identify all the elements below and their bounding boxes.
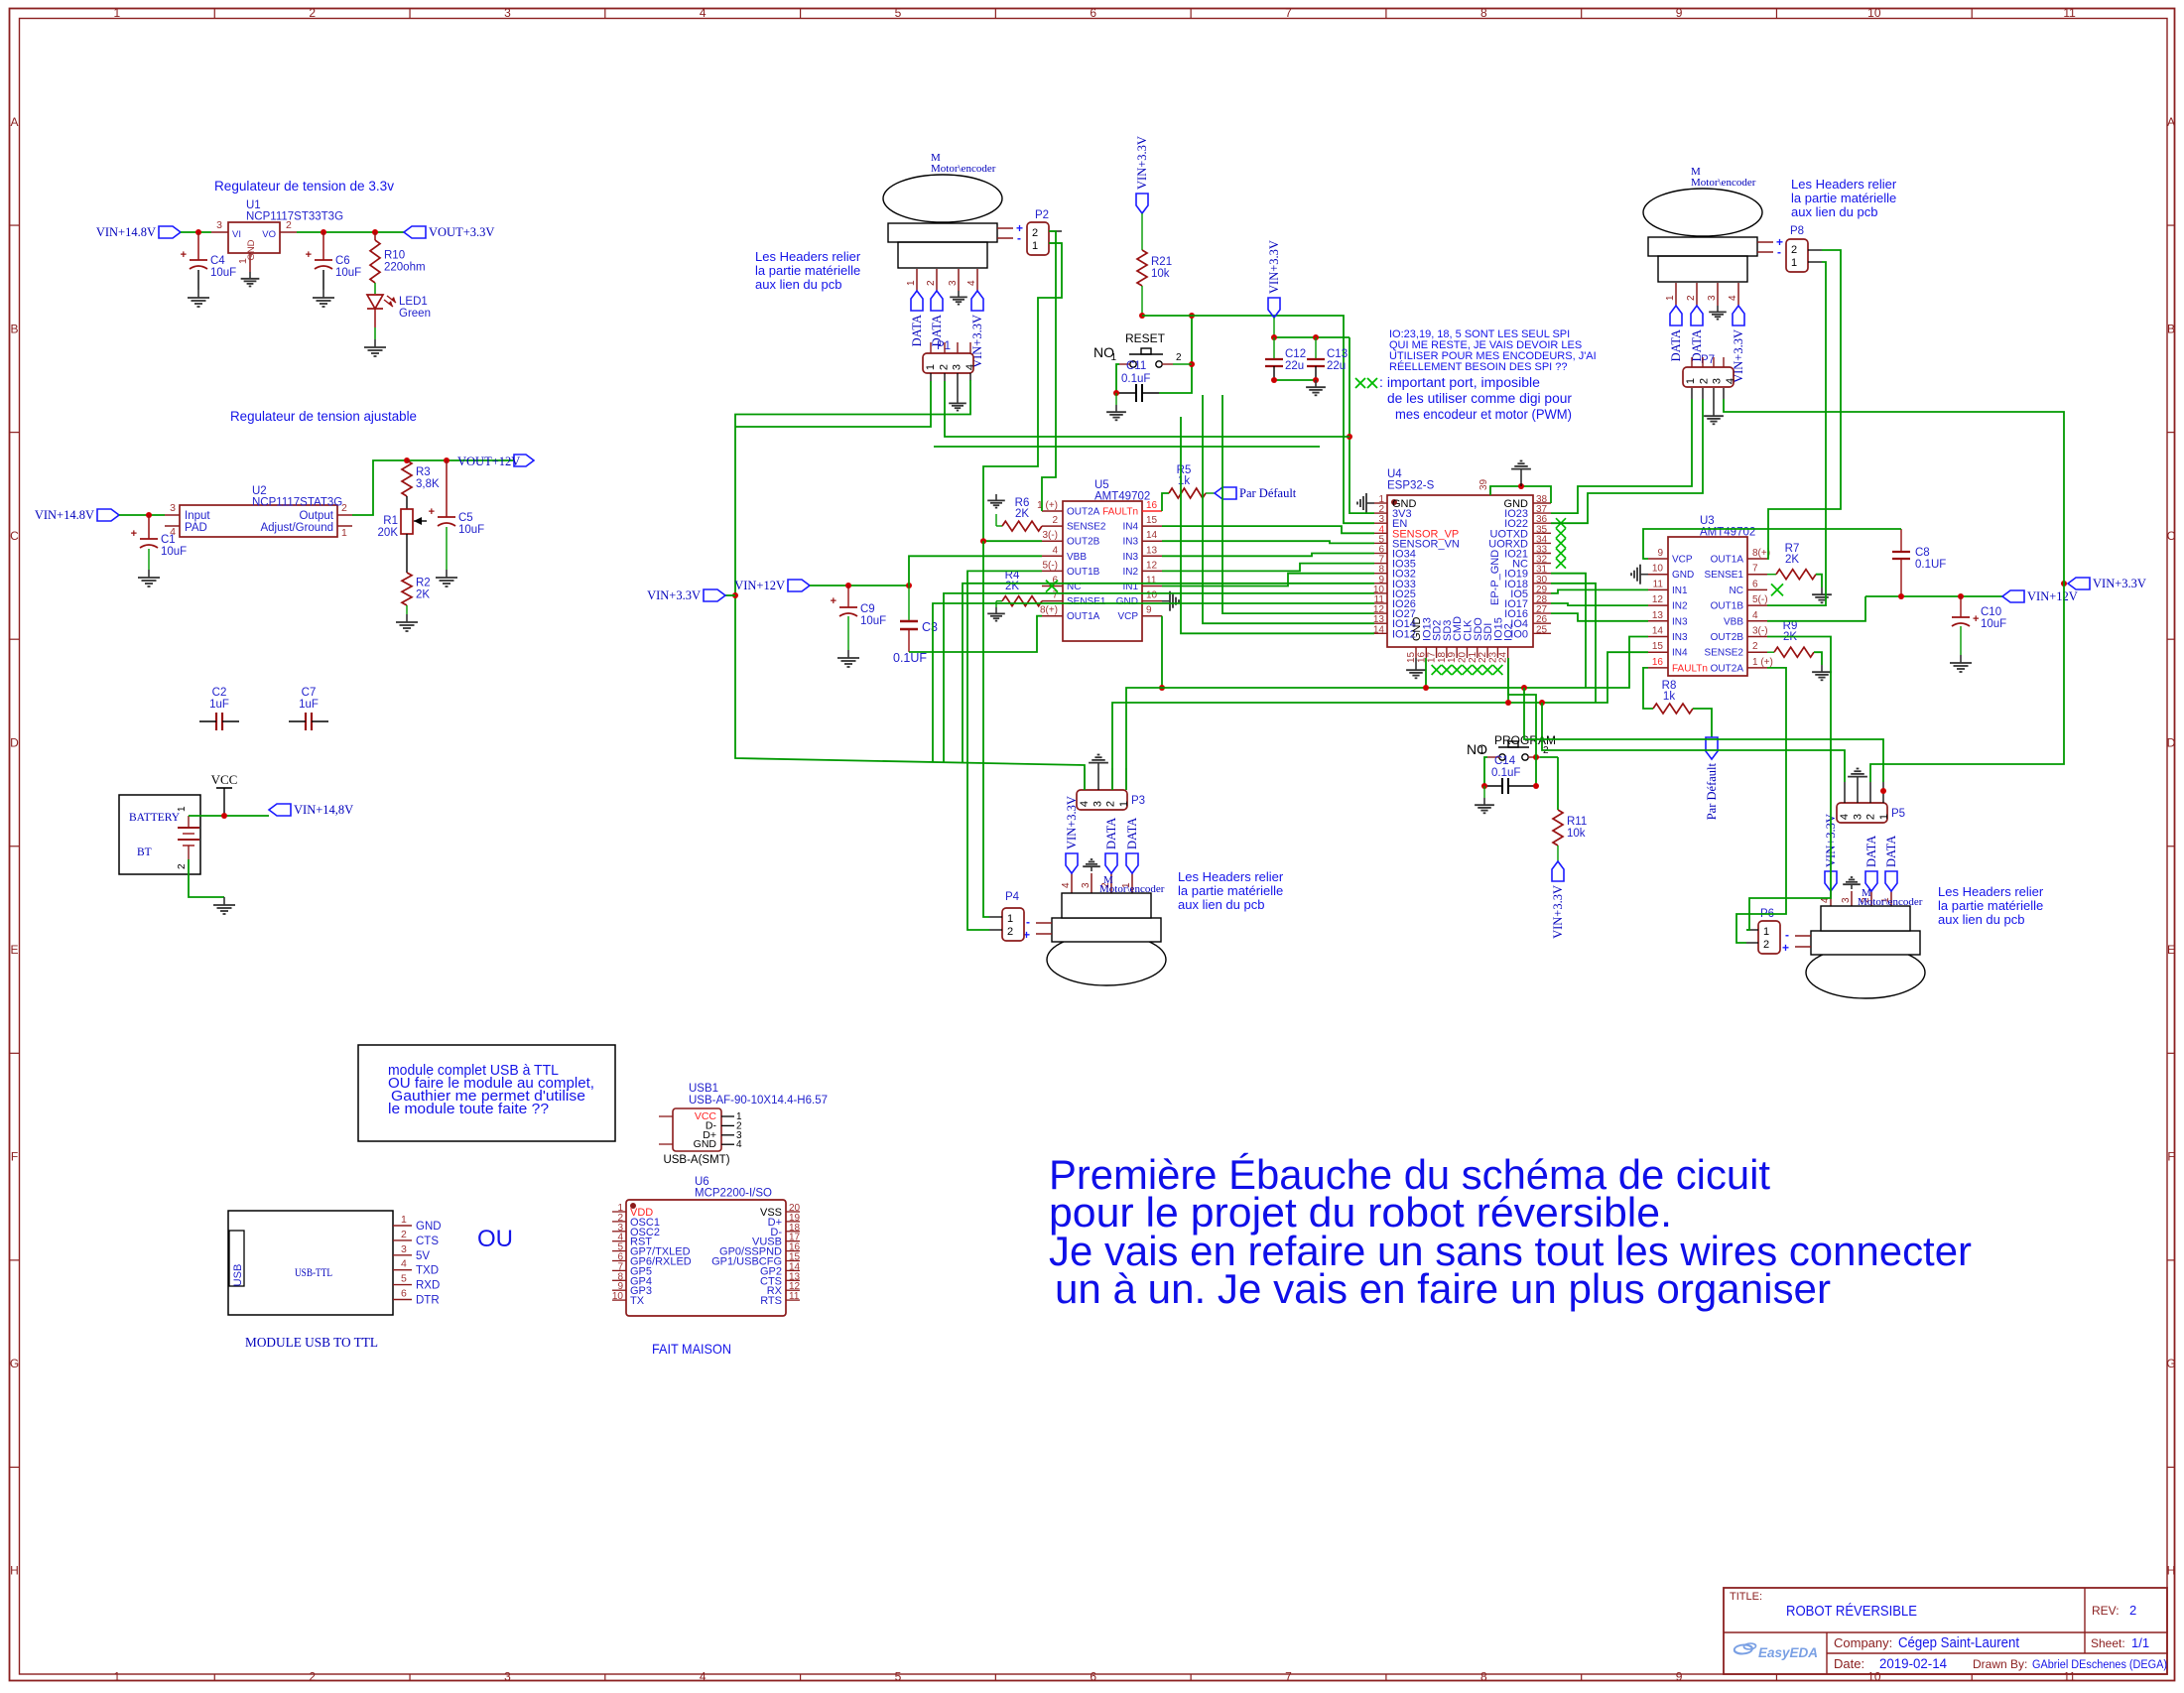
svg-text:R1: R1	[383, 515, 398, 527]
svg-text:+: +	[1782, 941, 1789, 955]
net flag DATA M1-2	[930, 291, 944, 346]
svg-text:NC: NC	[1730, 586, 1743, 596]
header P8 stubs	[1808, 250, 1822, 262]
regulator U1 NCP1117ST33T3G	[211, 199, 343, 272]
junction C3/VBB	[906, 583, 912, 588]
svg-text:6: 6	[1752, 579, 1758, 589]
resistor R2	[402, 573, 431, 605]
header P1 pin stubs	[931, 342, 970, 381]
junction at R10	[372, 229, 378, 235]
wire EP-P_GND to GND38	[1490, 486, 1551, 503]
VCC power symbol	[211, 772, 238, 816]
capacitor C9 10uF	[831, 586, 887, 650]
svg-text:RXD: RXD	[416, 1280, 440, 1292]
wire FAULTn to R8	[1643, 668, 1653, 709]
resistor R5 1k	[1169, 464, 1206, 498]
ground at C9	[837, 650, 859, 667]
svg-text:-: -	[1017, 231, 1021, 245]
resistor R3	[402, 460, 440, 496]
svg-text:3: 3	[1852, 814, 1863, 820]
svg-text:3: 3	[216, 219, 222, 231]
ground at M2 pin3	[1709, 306, 1727, 320]
svg-text:10: 10	[1867, 1670, 1881, 1684]
motor M1 Motor\encoder top-left	[883, 152, 1023, 268]
svg-text:Les Headers relier: Les Headers relier	[755, 249, 861, 264]
svg-text:1: 1	[1685, 378, 1697, 384]
wire U5 IN3b to U4 IO34	[1162, 554, 1374, 557]
svg-text:11: 11	[789, 1291, 800, 1302]
svg-text:RESET: RESET	[1125, 331, 1166, 345]
svg-text:VIN+3.3V: VIN+3.3V	[970, 315, 984, 368]
svg-text:aux lien du pcb: aux lien du pcb	[755, 277, 841, 292]
svg-text:R2: R2	[416, 578, 431, 589]
junction C12 top	[1271, 334, 1277, 340]
svg-text:R10: R10	[384, 250, 405, 262]
wire U4 IO5 to U3 IN1	[1551, 589, 1648, 593]
module U4 ESP32-S	[1373, 468, 1551, 663]
wire ground to R4	[996, 601, 1002, 607]
wire U4 IO33 left	[963, 584, 1374, 763]
svg-text:DATA: DATA	[1864, 836, 1878, 867]
svg-text:ESP32-S: ESP32-S	[1387, 480, 1435, 492]
svg-text:NCP1117ST33T3G: NCP1117ST33T3G	[246, 211, 343, 223]
header P3 label	[1131, 795, 1145, 807]
net flag VIN+12V right	[2002, 589, 2078, 603]
wire U4 IO17 to U3 IN2	[1551, 603, 1648, 605]
capacitor C2	[199, 687, 239, 730]
wire P8-2 to U3 OUT1A	[1767, 250, 1841, 559]
svg-text:5: 5	[401, 1273, 407, 1285]
svg-text:C8: C8	[1915, 547, 1930, 559]
ground at C14	[1475, 798, 1494, 813]
wire battery pin2 to ground	[189, 859, 224, 897]
wire U5 IN3 to U4 SENSOR_VN	[1162, 541, 1374, 543]
wire P1-4 / VIN3.3 trunk to P3-4	[735, 380, 1085, 790]
junction IO13	[1423, 685, 1429, 691]
svg-text:2K: 2K	[1005, 581, 1019, 592]
svg-text:IN3: IN3	[1122, 537, 1138, 548]
ground at U5 pin10	[1162, 591, 1179, 611]
capacitor C13 22u	[1307, 337, 1348, 380]
svg-text:aux lien du pcb: aux lien du pcb	[1178, 897, 1264, 912]
svg-text:20K: 20K	[378, 527, 399, 539]
ground at M3	[1083, 859, 1100, 871]
svg-text:1: 1	[906, 280, 917, 286]
no-connect X at U4 right pin 36	[1556, 518, 1566, 528]
svg-text:2K: 2K	[416, 589, 430, 601]
connector USB1 USB-AF	[659, 1083, 828, 1166]
net flag DATA M2-2	[1690, 306, 1704, 361]
net flag VIN+3.3V right	[2068, 577, 2146, 590]
wire P2-1 to U5 OUT2B	[983, 243, 1062, 541]
svg-text:15: 15	[1146, 515, 1158, 526]
motor M3 label	[1099, 874, 1165, 895]
note: Premiere Ebauche paragraph	[1049, 1151, 1972, 1312]
svg-text:P4: P4	[1005, 891, 1020, 903]
svg-text:D: D	[10, 735, 19, 749]
junction P5 line B	[1539, 700, 1545, 706]
net flag DATA M3-1	[1104, 818, 1118, 873]
wire U4 IO25 left	[944, 593, 1374, 762]
svg-text:B: B	[2167, 322, 2175, 335]
capacitor C12 22u	[1265, 337, 1306, 380]
junction PROGRAM right	[1533, 754, 1539, 760]
header P4 stubs	[989, 917, 1002, 930]
svg-text:9: 9	[1676, 1670, 1683, 1684]
wire P7-4 to VIN+3.3V right	[1724, 399, 2064, 584]
note: IO SPI text	[1389, 328, 1597, 373]
ground at C5	[436, 570, 457, 586]
wire VIN+12V rail left	[810, 585, 909, 586]
svg-text:VIN+3.3V: VIN+3.3V	[1135, 136, 1149, 190]
svg-text:8: 8	[1480, 1670, 1487, 1684]
net flag VOUT+3.3V	[404, 225, 494, 239]
svg-text:4: 4	[1839, 814, 1851, 820]
svg-text:Par Défault: Par Défault	[1239, 486, 1297, 500]
EasyEDA logo	[1734, 1643, 1818, 1660]
svg-text:MODULE USB TO TTL: MODULE USB TO TTL	[245, 1336, 378, 1351]
svg-text:6: 6	[401, 1288, 407, 1300]
wire U1 VO to VOUT	[297, 231, 404, 233]
wire SENSE2 to R9	[1767, 651, 1774, 653]
battery BT	[119, 795, 200, 874]
svg-text:C7: C7	[302, 687, 317, 699]
junction at R3	[404, 457, 410, 463]
module USB-TTL block	[228, 1211, 442, 1315]
svg-text:RTS: RTS	[760, 1295, 782, 1307]
wire to R11	[1557, 757, 1559, 810]
svg-text:1: 1	[1110, 352, 1116, 363]
svg-text:VOUT+12V: VOUT+12V	[457, 455, 520, 468]
ground at M4	[1843, 877, 1861, 889]
svg-text:2019-02-14: 2019-02-14	[1879, 1655, 1947, 1671]
wire U4 IO13 down	[1425, 658, 1427, 688]
svg-text:G: G	[2166, 1357, 2175, 1370]
svg-text:3: 3	[504, 6, 511, 20]
svg-text:2: 2	[926, 280, 937, 286]
svg-text:4: 4	[401, 1258, 407, 1270]
wire U4 IO14 left	[1203, 395, 1374, 623]
junction at C4	[195, 229, 201, 235]
motor M3 Motor\encoder bottom-left	[1023, 893, 1166, 985]
junction C12 bottom	[1271, 377, 1277, 383]
svg-text:Regulateur de tension de 3.3v: Regulateur de tension de 3.3v	[214, 179, 394, 194]
svg-text:B: B	[10, 322, 18, 335]
svg-text:GND: GND	[694, 1138, 717, 1150]
svg-text:4: 4	[1728, 295, 1738, 301]
svg-text:IN3: IN3	[1672, 632, 1688, 643]
note: important port legend	[1355, 375, 1572, 422]
wire C14 to ground	[1483, 786, 1485, 798]
svg-text:G: G	[10, 1357, 19, 1370]
capacitor C1 10uF lead	[148, 515, 150, 570]
svg-text:2: 2	[177, 863, 188, 869]
motor M3 pins	[1061, 873, 1132, 893]
svg-text:H: H	[10, 1564, 19, 1578]
pushbutton RESET (NO)	[1093, 331, 1182, 367]
no-connect X at U4 bottom pin 19	[1452, 665, 1462, 675]
svg-text:SENSE2: SENSE2	[1705, 648, 1744, 659]
svg-text:DATA: DATA	[910, 315, 924, 346]
svg-text:Motor\encoder: Motor\encoder	[1099, 883, 1165, 895]
wire P7-2 to U4 IO22	[1551, 399, 1703, 523]
svg-text:11: 11	[2063, 6, 2076, 20]
resistor R6 2K	[1002, 497, 1042, 531]
svg-text:RÉELLEMENT BESOIN DES SPI ??: RÉELLEMENT BESOIN DES SPI ??	[1389, 360, 1568, 373]
svg-text:5: 5	[895, 1670, 902, 1684]
header P5	[1837, 803, 1890, 823]
svg-text:GND: GND	[246, 239, 257, 260]
svg-text:VIN+14.8V: VIN+14.8V	[35, 508, 94, 522]
net flag DATA M1-1	[910, 291, 924, 346]
svg-text:3: 3	[1081, 882, 1092, 888]
svg-text:22u: 22u	[1327, 360, 1346, 372]
svg-text:P8: P8	[1790, 225, 1804, 237]
svg-text:SENSE1: SENSE1	[1705, 570, 1744, 581]
svg-text:1uF: 1uF	[209, 699, 229, 711]
svg-text:5(-): 5(-)	[1752, 594, 1768, 605]
resistor R7 2K	[1776, 543, 1816, 580]
svg-text:A: A	[10, 115, 18, 129]
svg-text:1: 1	[925, 364, 937, 370]
header P7 pin stubs	[1692, 357, 1724, 399]
svg-text:1: 1	[114, 6, 121, 20]
ground at P7 pin3	[1704, 409, 1724, 424]
svg-text:OUT2B: OUT2B	[1067, 537, 1100, 548]
svg-text:4: 4	[964, 364, 976, 370]
svg-text:C: C	[2167, 529, 2176, 543]
svg-text:VIN+3.3V: VIN+3.3V	[647, 588, 701, 602]
no-connect X at U4 right pin 35	[1556, 528, 1566, 538]
capacitor C3 0.1UF	[893, 586, 938, 665]
svg-text:+: +	[306, 249, 312, 261]
capacitor C6	[306, 249, 362, 279]
svg-text:11: 11	[1146, 576, 1157, 586]
svg-text:aux lien du pcb: aux lien du pcb	[1791, 204, 1877, 219]
svg-text:2: 2	[401, 1229, 407, 1240]
svg-text:IN2: IN2	[1672, 601, 1688, 612]
svg-text:2: 2	[2129, 1603, 2136, 1618]
svg-text:VO: VO	[262, 229, 276, 240]
wire R7 to ground	[1816, 575, 1822, 587]
svg-text:10uF: 10uF	[210, 267, 236, 279]
svg-text:2: 2	[1007, 926, 1013, 938]
header P1	[923, 353, 976, 373]
svg-text:14: 14	[1373, 624, 1385, 635]
junction at C5	[444, 457, 450, 463]
no-connect X at U4 bottom pin 18	[1442, 665, 1452, 675]
resistor R10 lead	[374, 232, 376, 240]
svg-text:10k: 10k	[1151, 268, 1170, 280]
wire 3V3 supply to U4	[1349, 337, 1374, 513]
svg-text:OUT2B: OUT2B	[1711, 632, 1744, 643]
regulator U2 NCP1117STAT3G	[165, 485, 352, 539]
wire U4 IO19 down	[1551, 574, 1586, 688]
wire U3 VCP to C8	[1643, 529, 1901, 559]
wire RESET pin2 stub	[1173, 363, 1192, 365]
junction at C1	[146, 512, 152, 518]
note: Les Headers relier (top-left)	[755, 249, 861, 292]
wire C11 to ground	[1115, 393, 1117, 405]
svg-text:VCP: VCP	[1117, 611, 1138, 622]
svg-text:F: F	[11, 1150, 18, 1164]
svg-text:2: 2	[1763, 939, 1769, 951]
wire PROGRAM pin2	[1540, 756, 1558, 758]
junction C10 top	[1958, 593, 1964, 599]
wire U5 IN1 to U4 IO32	[1162, 574, 1374, 586]
capacitor C4 10uF	[197, 232, 199, 290]
svg-text:2: 2	[1052, 515, 1058, 526]
junction R21 bottom	[1139, 313, 1145, 319]
svg-text:IN3: IN3	[1672, 616, 1688, 627]
svg-text:4: 4	[1061, 882, 1072, 888]
no-connect X at U4 bottom pin 20	[1463, 665, 1473, 675]
svg-text:-: -	[1777, 245, 1781, 259]
wire PROGRAM to C14 right	[1535, 757, 1537, 786]
svg-text:C3: C3	[922, 620, 938, 634]
svg-text:FAULTn: FAULTn	[1672, 663, 1708, 674]
no-connect X at U4 right pin 33	[1556, 549, 1566, 559]
net flag VIN+3.3V at C12	[1267, 240, 1281, 318]
svg-text:OUT1B: OUT1B	[1067, 567, 1100, 578]
svg-text:P5: P5	[1891, 808, 1905, 820]
junction at P5 pin1	[1880, 788, 1886, 794]
motor M4 pins	[1820, 891, 1891, 906]
resistor R11	[1553, 810, 1587, 846]
header P8 label	[1790, 225, 1804, 237]
svg-text:1uF: 1uF	[299, 699, 319, 711]
svg-text:Drawn By:: Drawn By:	[1973, 1657, 2027, 1671]
svg-text:10uF: 10uF	[860, 615, 886, 627]
svg-text:IN4: IN4	[1672, 648, 1688, 659]
svg-text:VIN+3.3V: VIN+3.3V	[1267, 240, 1281, 294]
svg-text:1: 1	[1878, 814, 1890, 820]
wire ground to R6	[996, 514, 1002, 526]
capacitor C14 0.1uF	[1484, 755, 1536, 794]
svg-text:A: A	[2167, 115, 2175, 129]
wire U4 IO16 to U3 IN3	[1551, 613, 1648, 621]
no-connect X at U5 pin6	[1046, 581, 1058, 592]
wire OUT1B to P4-2	[967, 571, 1042, 930]
motor M4 Motor\encoder bottom-right	[1782, 906, 1925, 998]
svg-text:24: 24	[1498, 651, 1509, 663]
motor M4 label	[1858, 887, 1923, 908]
svg-text:E: E	[10, 943, 18, 957]
header P6 label	[1760, 908, 1774, 920]
note box: module complet USB a TTL	[358, 1045, 615, 1141]
svg-text:Regulateur de tension ajustabl: Regulateur de tension ajustable	[230, 409, 417, 424]
junction 3V3 net	[1347, 434, 1352, 440]
svg-text:1: 1	[1763, 926, 1769, 938]
no-connect X at U4 right pin 34	[1556, 538, 1566, 548]
capacitor C1	[131, 528, 188, 558]
capacitor C8 0.1UF	[1892, 529, 1946, 596]
header P2 label	[1035, 209, 1049, 221]
svg-text:4: 4	[1752, 610, 1758, 621]
svg-text:16: 16	[1652, 657, 1664, 668]
ground at C1	[138, 570, 160, 586]
wire aux run	[934, 446, 1320, 448]
svg-text:Input: Input	[185, 510, 210, 522]
junction OUT2B branch	[980, 538, 986, 544]
junction C9	[845, 583, 851, 588]
svg-text:GND: GND	[1116, 596, 1138, 607]
wire C3 to U5 OUT1A	[909, 616, 1042, 652]
section title: Regulateur de tension ajustable	[230, 409, 417, 424]
svg-text:R3: R3	[416, 466, 431, 478]
ground at P5 pin3	[1848, 769, 1867, 783]
svg-text:3: 3	[1841, 897, 1852, 903]
ground at U3 pin10	[1631, 565, 1648, 585]
wire C12 C13 rail	[1274, 336, 1349, 338]
wire OUT2B to P4-1	[983, 541, 989, 917]
header P5 pin stubs	[1845, 782, 1883, 803]
wire P3-2 to U3 IN4	[1112, 652, 1648, 790]
svg-text:F: F	[2167, 1150, 2174, 1164]
svg-text:6: 6	[1090, 1670, 1096, 1684]
wire VIN to U1	[181, 231, 211, 233]
svg-text:R11: R11	[1567, 816, 1587, 828]
svg-text:REV:: REV:	[2092, 1604, 2120, 1618]
header P3 pin stubs	[1085, 768, 1126, 790]
header P4	[1002, 908, 1024, 941]
svg-text:25: 25	[1536, 624, 1548, 635]
svg-text:U1: U1	[246, 199, 261, 211]
net flag DATA M4-2	[1884, 836, 1898, 891]
ground at C13	[1306, 380, 1326, 395]
junction C8 bottom	[1898, 593, 1904, 599]
wire P1-2 to 3V3 net	[945, 381, 1349, 437]
wire top ground stem	[1520, 474, 1522, 486]
svg-text:3,8K: 3,8K	[416, 478, 440, 490]
svg-text:VIN+12V: VIN+12V	[734, 579, 785, 592]
wire LED to ground	[374, 327, 376, 339]
wire RESET pin1 to C11	[1116, 364, 1119, 393]
svg-text:4: 4	[966, 280, 977, 286]
svg-text:1 (+): 1 (+)	[1752, 657, 1773, 668]
svg-text:1: 1	[1478, 745, 1484, 756]
wire VIN to U2	[119, 514, 165, 516]
svg-text:4: 4	[736, 1139, 742, 1150]
svg-text:GAbriel DEschenes (DEGA): GAbriel DEschenes (DEGA)	[2032, 1659, 2167, 1671]
wire line to P5-4	[1542, 703, 1845, 782]
svg-text:10: 10	[1652, 564, 1664, 575]
resistor R4 2K	[1002, 570, 1042, 606]
wire U3 VBB to rail	[1767, 596, 1865, 621]
svg-text:2K: 2K	[1785, 554, 1799, 566]
no-connect X at U4 bottom pin 22	[1482, 665, 1492, 675]
ground at C11	[1106, 405, 1126, 420]
svg-text:+: +	[1973, 613, 1979, 625]
wire flag to trunk	[725, 594, 735, 596]
net flag VIN+3.3V M1-4	[970, 291, 984, 368]
svg-text:1: 1	[1791, 257, 1797, 269]
wire P3-1 to U3 IN3	[1126, 637, 1648, 791]
svg-text:ROBOT RÉVERSIBLE: ROBOT RÉVERSIBLE	[1786, 1603, 1917, 1620]
svg-text:USB-TTL: USB-TTL	[295, 1265, 332, 1279]
svg-text:0.1UF: 0.1UF	[1915, 559, 1946, 571]
wire U2 output to VOUT+12V rail	[352, 460, 514, 515]
junction VIN+3.3V right	[2061, 581, 2067, 586]
junction VCC	[221, 813, 227, 819]
wire R8 to flag	[1693, 709, 1712, 737]
svg-text:VBB: VBB	[1067, 552, 1087, 563]
svg-text:4: 4	[1079, 801, 1091, 807]
svg-text:1/1: 1/1	[2131, 1635, 2149, 1650]
svg-text:U5: U5	[1094, 479, 1109, 491]
svg-text:1: 1	[114, 1670, 121, 1684]
svg-text:Motor\encoder: Motor\encoder	[931, 163, 996, 175]
